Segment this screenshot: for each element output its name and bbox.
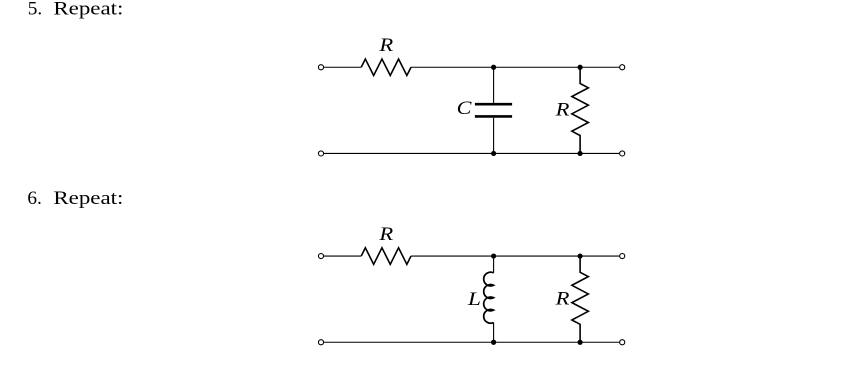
svg-text:6.: 6.	[27, 188, 41, 209]
svg-text:Repeat:: Repeat:	[53, 0, 123, 20]
svg-text:C: C	[457, 98, 472, 119]
svg-text:Repeat:: Repeat:	[53, 188, 123, 209]
svg-text:R: R	[378, 35, 393, 56]
svg-text:R: R	[554, 288, 569, 309]
svg-text:R: R	[554, 100, 569, 121]
svg-text:5.: 5.	[28, 0, 42, 20]
svg-text:R: R	[378, 224, 393, 245]
svg-text:L: L	[467, 289, 481, 310]
